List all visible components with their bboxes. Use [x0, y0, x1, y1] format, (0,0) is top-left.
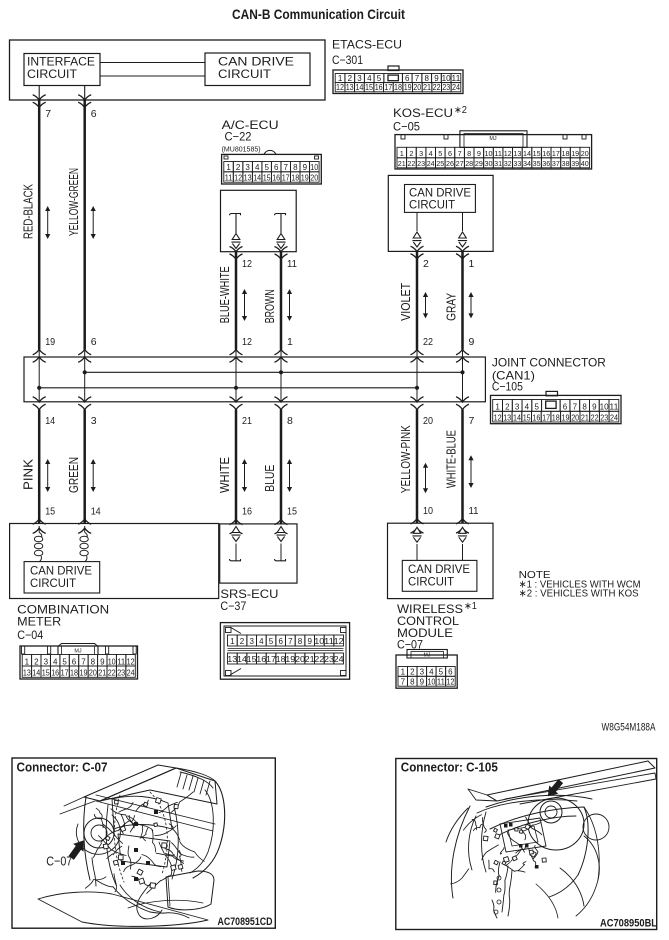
svg-text:26: 26 [446, 159, 454, 168]
svg-text:CAN DRIVE: CAN DRIVE [30, 566, 92, 578]
svg-text:12: 12 [242, 336, 252, 348]
svg-text:3: 3 [357, 74, 362, 83]
svg-text:2: 2 [505, 403, 510, 412]
svg-text:8: 8 [410, 678, 415, 687]
svg-text:4: 4 [255, 163, 260, 172]
svg-text:18: 18 [562, 149, 570, 158]
svg-text:31: 31 [494, 159, 502, 168]
svg-text:5: 5 [438, 149, 442, 158]
svg-text:13: 13 [244, 174, 252, 183]
svg-text:28: 28 [465, 159, 473, 168]
svg-text:C−37: C−37 [220, 599, 246, 613]
svg-text:24: 24 [610, 413, 618, 422]
svg-text:17: 17 [282, 174, 290, 183]
svg-text:11: 11 [469, 505, 479, 517]
svg-text:10: 10 [310, 163, 318, 172]
svg-text:1: 1 [287, 336, 293, 348]
svg-text:1: 1 [230, 637, 235, 646]
svg-text:CAN-B Communication Circuit: CAN-B Communication Circuit [232, 7, 405, 22]
svg-text:18: 18 [552, 413, 560, 422]
svg-text:8: 8 [582, 403, 587, 412]
svg-text:Connector: C-07: Connector: C-07 [17, 761, 108, 775]
svg-text:11: 11 [451, 74, 461, 83]
svg-text:VIOLET: VIOLET [399, 283, 413, 321]
svg-text:9: 9 [100, 657, 105, 666]
svg-text:10: 10 [442, 74, 452, 83]
svg-text:∗2 : VEHICLES WITH KOS: ∗2 : VEHICLES WITH KOS [519, 588, 639, 600]
svg-text:2: 2 [34, 657, 39, 666]
svg-text:15: 15 [523, 413, 531, 422]
svg-text:7: 7 [401, 678, 406, 687]
svg-text:12: 12 [234, 174, 242, 183]
svg-text:7: 7 [81, 657, 86, 666]
svg-text:9: 9 [592, 403, 597, 412]
svg-text:24: 24 [452, 83, 460, 92]
svg-text:4: 4 [429, 149, 433, 158]
svg-text:16: 16 [542, 149, 550, 158]
svg-text:3: 3 [249, 637, 254, 646]
svg-text:2: 2 [423, 258, 429, 270]
svg-text:1: 1 [25, 657, 30, 666]
svg-text:14: 14 [523, 149, 531, 158]
svg-text:6: 6 [91, 108, 97, 120]
svg-text:2: 2 [348, 74, 353, 83]
svg-text:Connector: C-105: Connector: C-105 [401, 761, 498, 775]
svg-text:2: 2 [409, 149, 413, 158]
svg-text:∗2: ∗2 [454, 105, 467, 116]
svg-text:16: 16 [532, 413, 540, 422]
svg-text:23: 23 [442, 83, 450, 92]
svg-text:9: 9 [477, 149, 481, 158]
svg-text:5: 5 [269, 637, 274, 646]
svg-text:(MU801585): (MU801585) [222, 145, 261, 154]
svg-text:13: 13 [23, 669, 31, 678]
svg-text:C−301: C−301 [332, 53, 363, 67]
svg-text:CIRCUIT: CIRCUIT [218, 69, 271, 81]
svg-text:CAN DRIVE: CAN DRIVE [409, 188, 471, 200]
svg-text:WHITE-BLUE: WHITE-BLUE [445, 430, 459, 488]
svg-text:5: 5 [62, 657, 67, 666]
svg-text:1: 1 [400, 149, 404, 158]
svg-text:8: 8 [287, 415, 293, 427]
svg-text:16: 16 [242, 506, 252, 518]
svg-text:8: 8 [91, 657, 96, 666]
svg-text:5: 5 [534, 403, 539, 412]
svg-text:BROWN: BROWN [263, 289, 277, 323]
svg-text:9: 9 [434, 74, 439, 83]
svg-text:3: 3 [44, 657, 49, 666]
svg-text:6: 6 [274, 163, 279, 172]
svg-text:10: 10 [427, 678, 435, 687]
svg-text:12: 12 [336, 83, 344, 92]
svg-text:37: 37 [552, 159, 560, 168]
svg-text:25: 25 [436, 159, 444, 168]
svg-text:22: 22 [433, 83, 441, 92]
svg-text:27: 27 [456, 159, 464, 168]
svg-text:CAN DRIVE: CAN DRIVE [218, 57, 294, 69]
svg-text:18: 18 [291, 174, 299, 183]
svg-text:20: 20 [413, 83, 421, 92]
svg-text:11: 11 [117, 657, 126, 666]
svg-text:GREEN: GREEN [67, 457, 81, 493]
svg-text:22: 22 [407, 159, 415, 168]
svg-text:3: 3 [245, 163, 250, 172]
svg-text:21: 21 [423, 83, 431, 92]
svg-text:∗1: ∗1 [464, 601, 477, 612]
svg-text:8: 8 [467, 149, 471, 158]
svg-text:6: 6 [448, 668, 453, 677]
svg-text:AC708951CD: AC708951CD [218, 916, 273, 928]
svg-text:1: 1 [226, 163, 231, 172]
svg-text:10: 10 [485, 149, 493, 158]
svg-text:5: 5 [264, 163, 269, 172]
svg-text:7: 7 [45, 108, 51, 120]
svg-text:12: 12 [504, 149, 512, 158]
svg-text:12: 12 [446, 678, 454, 687]
svg-text:21: 21 [398, 159, 406, 168]
svg-text:BLUE: BLUE [263, 465, 277, 492]
svg-text:8: 8 [424, 74, 429, 83]
svg-text:8: 8 [293, 163, 298, 172]
svg-text:38: 38 [562, 159, 570, 168]
svg-text:2: 2 [236, 163, 241, 172]
svg-text:19: 19 [80, 669, 88, 678]
svg-text:6: 6 [448, 149, 452, 158]
svg-text:9: 9 [307, 637, 312, 646]
svg-text:23: 23 [417, 159, 425, 168]
svg-text:21: 21 [98, 669, 106, 678]
svg-text:15: 15 [533, 149, 541, 158]
svg-text:2: 2 [240, 637, 245, 646]
svg-text:33: 33 [513, 159, 521, 168]
svg-text:C−04: C−04 [17, 628, 43, 642]
svg-text:34: 34 [523, 159, 531, 168]
svg-text:6: 6 [405, 74, 410, 83]
svg-text:20: 20 [581, 149, 589, 158]
svg-text:40: 40 [581, 159, 589, 168]
svg-text:C−07: C−07 [46, 854, 72, 869]
svg-text:14: 14 [253, 174, 261, 183]
svg-text:19: 19 [571, 149, 579, 158]
svg-text:12: 12 [242, 258, 252, 270]
svg-text:14: 14 [513, 413, 521, 422]
svg-text:17: 17 [61, 669, 69, 678]
svg-text:MJ: MJ [424, 653, 431, 659]
svg-text:8: 8 [298, 637, 303, 646]
svg-text:BLUE-WHITE: BLUE-WHITE [218, 266, 232, 323]
svg-text:21: 21 [581, 413, 589, 422]
svg-text:24: 24 [127, 669, 135, 678]
svg-text:14: 14 [45, 415, 55, 427]
svg-text:11: 11 [494, 149, 502, 158]
svg-text:CIRCUIT: CIRCUIT [409, 200, 455, 212]
svg-text:CIRCUIT: CIRCUIT [30, 578, 76, 590]
svg-text:7: 7 [415, 74, 420, 83]
svg-text:11: 11 [437, 678, 446, 687]
svg-text:11: 11 [609, 403, 619, 412]
svg-text:1: 1 [401, 668, 406, 677]
svg-text:19: 19 [562, 413, 570, 422]
svg-text:6: 6 [91, 336, 97, 348]
svg-text:9: 9 [303, 163, 308, 172]
svg-text:CAN DRIVE: CAN DRIVE [408, 564, 470, 576]
svg-text:6: 6 [278, 637, 283, 646]
svg-text:17: 17 [542, 413, 550, 422]
svg-text:6: 6 [72, 657, 77, 666]
svg-text:C−105: C−105 [492, 380, 523, 394]
svg-text:9: 9 [469, 336, 475, 348]
svg-text:5: 5 [377, 74, 382, 83]
svg-text:INTERFACE: INTERFACE [27, 57, 95, 69]
svg-text:RED-BLACK: RED-BLACK [21, 183, 35, 239]
svg-text:15: 15 [45, 506, 55, 518]
svg-text:METER: METER [17, 615, 61, 629]
svg-text:YELLOW-PINK: YELLOW-PINK [399, 425, 413, 494]
svg-text:14: 14 [91, 506, 101, 518]
svg-text:12: 12 [494, 413, 502, 422]
svg-text:29: 29 [475, 159, 483, 168]
svg-text:17: 17 [552, 149, 560, 158]
svg-text:KOS-ECU: KOS-ECU [393, 106, 453, 120]
svg-text:20: 20 [310, 174, 318, 183]
svg-text:PINK: PINK [21, 458, 35, 490]
svg-text:10: 10 [423, 505, 433, 517]
svg-text:4: 4 [367, 74, 372, 83]
svg-text:1: 1 [495, 403, 500, 412]
svg-text:36: 36 [542, 159, 550, 168]
svg-text:1: 1 [338, 74, 343, 83]
svg-text:13: 13 [503, 413, 511, 422]
svg-text:6: 6 [563, 403, 568, 412]
svg-text:39: 39 [571, 159, 579, 168]
svg-text:CIRCUIT: CIRCUIT [27, 69, 77, 81]
svg-text:3: 3 [420, 668, 425, 677]
svg-text:3: 3 [419, 149, 423, 158]
svg-text:W8G54M188A: W8G54M188A [602, 722, 656, 734]
svg-text:19: 19 [45, 336, 55, 348]
svg-text:18: 18 [70, 669, 78, 678]
svg-text:MJ: MJ [74, 649, 82, 655]
svg-text:7: 7 [469, 415, 475, 427]
svg-text:15: 15 [287, 506, 297, 518]
svg-text:22: 22 [423, 336, 433, 348]
svg-text:CIRCUIT: CIRCUIT [408, 577, 454, 589]
svg-text:11: 11 [225, 174, 234, 183]
svg-text:3: 3 [515, 403, 520, 412]
svg-text:C−22: C−22 [225, 130, 252, 144]
svg-text:4: 4 [525, 403, 530, 412]
svg-text:MJ: MJ [489, 136, 497, 142]
svg-text:WHITE: WHITE [218, 457, 232, 493]
svg-text:7: 7 [573, 403, 578, 412]
svg-text:13: 13 [346, 83, 354, 92]
svg-text:17: 17 [384, 83, 392, 92]
svg-text:16: 16 [375, 83, 383, 92]
svg-text:YELLOW-GREEN: YELLOW-GREEN [67, 168, 81, 236]
svg-text:23: 23 [117, 669, 125, 678]
svg-text:20: 20 [571, 413, 579, 422]
svg-text:3: 3 [91, 415, 97, 427]
svg-text:JOINT CONNECTOR: JOINT CONNECTOR [492, 356, 606, 370]
svg-text:10: 10 [600, 403, 610, 412]
svg-text:19: 19 [301, 174, 309, 183]
svg-text:7: 7 [288, 637, 293, 646]
svg-text:24: 24 [427, 159, 435, 168]
svg-text:32: 32 [504, 159, 512, 168]
svg-text:2: 2 [410, 668, 415, 677]
svg-text:30: 30 [485, 159, 493, 168]
svg-text:22: 22 [108, 669, 116, 678]
svg-text:4: 4 [259, 637, 264, 646]
svg-text:18: 18 [394, 83, 402, 92]
svg-text:22: 22 [591, 413, 599, 422]
svg-text:14: 14 [32, 669, 40, 678]
svg-text:7: 7 [458, 149, 462, 158]
svg-text:14: 14 [355, 83, 363, 92]
svg-text:AC708950BL: AC708950BL [600, 918, 657, 930]
svg-text:5: 5 [439, 668, 444, 677]
svg-text:20: 20 [423, 415, 433, 427]
svg-text:35: 35 [533, 159, 541, 168]
svg-text:12: 12 [127, 657, 135, 666]
svg-text:20: 20 [89, 669, 97, 678]
svg-text:16: 16 [272, 174, 280, 183]
svg-text:13: 13 [513, 149, 521, 158]
svg-text:15: 15 [365, 83, 373, 92]
svg-text:GRAY: GRAY [445, 292, 459, 321]
svg-text:7: 7 [283, 163, 288, 172]
svg-text:10: 10 [108, 657, 116, 666]
svg-text:24: 24 [334, 655, 345, 664]
svg-text:21: 21 [242, 415, 252, 427]
svg-text:15: 15 [263, 174, 271, 183]
svg-text:1: 1 [469, 258, 475, 270]
svg-text:19: 19 [404, 83, 412, 92]
svg-text:4: 4 [429, 668, 434, 677]
svg-text:4: 4 [53, 657, 58, 666]
svg-text:15: 15 [42, 669, 50, 678]
svg-text:ETACS-ECU: ETACS-ECU [332, 38, 402, 52]
svg-text:16: 16 [51, 669, 59, 678]
svg-text:9: 9 [420, 678, 425, 687]
svg-text:C−05: C−05 [393, 120, 420, 134]
svg-text:11: 11 [287, 258, 297, 270]
svg-text:12: 12 [334, 637, 345, 646]
svg-text:23: 23 [600, 413, 608, 422]
